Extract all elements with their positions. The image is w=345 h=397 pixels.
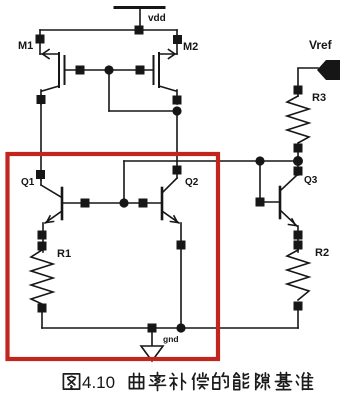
svg-text:Vref: Vref — [309, 38, 333, 52]
junction square: M1 drain — [37, 95, 46, 104]
svg-text:Q2: Q2 — [185, 177, 199, 188]
junction square: M2 source — [173, 35, 182, 44]
junction square: ground tap — [148, 324, 157, 333]
svg-text:R2: R2 — [315, 247, 329, 259]
transistor Q1 (NPN, mirrored) — [41, 180, 62, 252]
wire: Vref to R3 — [298, 68, 318, 96]
junction square: gate bus right — [136, 66, 145, 75]
svg-text:R3: R3 — [312, 92, 326, 104]
vdd power rail bar — [115, 6, 164, 9]
junction square: R3 top — [294, 86, 303, 95]
junction square: vdd tap — [135, 26, 144, 35]
caption glyph 能 — [234, 373, 249, 390]
caption glyph 的 — [213, 373, 228, 389]
node: M2 drain junction — [172, 106, 181, 115]
caption glyph 准 — [296, 373, 312, 390]
wire: Q3 base riser — [259, 161, 261, 202]
svg-text:Q3: Q3 — [304, 175, 318, 186]
wire: R2 to ground rail — [297, 310, 299, 328]
transistor Q3 (NPN) — [280, 161, 298, 252]
wire: R3 to node — [297, 152, 299, 161]
junction square: Q2 emitter — [177, 241, 186, 250]
svg-text:M1: M1 — [18, 40, 33, 52]
caption glyph 隙 — [256, 373, 270, 390]
wire: top supply rail — [40, 29, 177, 31]
junction square: R3 bottom — [294, 144, 303, 153]
ground — [141, 332, 163, 361]
caption glyph 基 — [275, 373, 291, 390]
svg-text:Q1: Q1 — [21, 177, 35, 188]
node: base bus tap — [119, 198, 128, 207]
node: Q3 base tap — [255, 156, 264, 165]
node: Q3 collector net — [293, 156, 303, 166]
junction square: Q1 collector — [36, 170, 45, 179]
red highlight rectangle — [8, 154, 219, 359]
resistor R2 — [287, 250, 309, 300]
junction square: Q3 emitter — [294, 231, 303, 240]
junction square: R1 bottom — [38, 304, 47, 313]
wire: gate-to-drain feedback horizontal — [109, 110, 177, 112]
wire: gate bus M1-M2 — [65, 69, 154, 71]
wire: vdd stub — [139, 8, 141, 30]
wire: M2 drain to Q2 collector — [176, 111, 178, 178]
svg-text:4.10: 4.10 — [82, 373, 115, 392]
wire: gate-to-drain feedback vertical — [108, 70, 110, 111]
caption glyph 率 — [149, 373, 165, 391]
junction square: M2 drain — [173, 96, 182, 105]
Vref connector — [317, 60, 340, 80]
caption glyph 补 — [170, 373, 186, 389]
wire: base node to Q3 collector node — [124, 160, 298, 162]
junction square: base bus right — [139, 199, 148, 208]
junction square: R2 bottom — [294, 302, 303, 311]
junction square: base bus left — [81, 199, 90, 208]
junction square: Q2 collector — [173, 166, 182, 175]
wire: M1 drain to Q1 collector — [40, 104, 42, 180]
wire: R1 to ground rail — [41, 312, 43, 328]
transistor Q2 (NPN) — [162, 178, 181, 328]
node: Q2 emitter at ground rail — [176, 323, 185, 332]
wire: Q1-Q2 base bus — [62, 202, 161, 204]
junction square: gate bus left — [76, 66, 85, 75]
svg-text:R1: R1 — [57, 248, 71, 260]
wire: ground rail — [42, 327, 298, 329]
wire: base bus riser — [123, 161, 125, 203]
junction square: M1 source — [36, 35, 45, 44]
caption glyph 图 — [63, 374, 79, 389]
transistor M1 (PMOS) — [40, 30, 65, 104]
wire: Q3 base horizontal — [260, 201, 279, 203]
node: gate bus tap — [104, 65, 113, 74]
caption glyph 偿 — [192, 373, 208, 390]
resistor R3 — [287, 96, 309, 143]
svg-text:M2: M2 — [183, 41, 198, 53]
caption glyph 曲 — [129, 373, 143, 388]
junction square: Q1 emitter upper — [38, 231, 47, 240]
svg-text:vdd: vdd — [148, 13, 166, 24]
svg-text:gnd: gnd — [163, 334, 179, 344]
transistor M2 (PMOS, mirrored) — [154, 30, 178, 104]
resistor R1 — [31, 250, 53, 304]
junction square: R2 top — [294, 241, 303, 250]
junction square: Q3 collector — [294, 167, 303, 176]
junction square: R1 top — [38, 242, 47, 251]
junction square: Q3 base — [256, 198, 265, 207]
